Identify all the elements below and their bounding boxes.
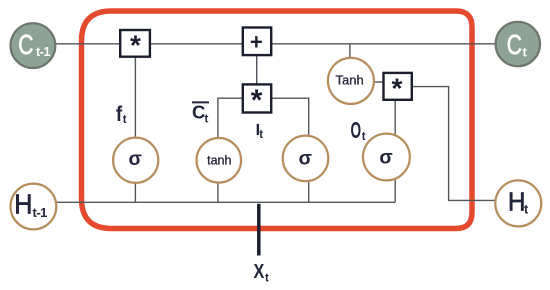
- node Ct (new cell state circle): [496, 22, 540, 66]
- svg-text:t: t: [265, 272, 269, 284]
- svg-text:t: t: [123, 114, 127, 126]
- Xt input line (thick): [257, 204, 261, 256]
- tanh circle (small): [197, 138, 242, 183]
- svg-text:σ: σ: [129, 148, 142, 170]
- svg-text:C: C: [18, 30, 33, 61]
- box *2 (input gate multiply): [243, 84, 271, 112]
- svg-text:H: H: [508, 188, 525, 217]
- wire: forget gate stem (box *1 down to sigma1 and bottom line): [134, 44, 136, 202]
- svg-text:t-1: t-1: [33, 205, 48, 220]
- wire: plus box down to center * box: [256, 44, 258, 98]
- node Ht (hidden state output circle): [495, 180, 541, 226]
- node Ct-1 (previous cell state circle): [11, 23, 56, 68]
- label Ot (output gate): [351, 119, 362, 145]
- svg-text:σ: σ: [299, 148, 312, 170]
- svg-text:*: *: [392, 73, 403, 104]
- sigma1 circle: [113, 138, 158, 183]
- wire: output * box to Ht: [411, 87, 496, 201]
- Tanh circle (output): [328, 58, 374, 104]
- box + (cell state add): [243, 28, 271, 56]
- svg-text:X: X: [254, 260, 265, 282]
- svg-text:O: O: [351, 119, 362, 145]
- wire: cell state line Ct-1 to Ct: [54, 43, 496, 45]
- sigma2 circle: [283, 136, 329, 182]
- svg-text:C: C: [507, 30, 522, 61]
- svg-text:*: *: [130, 30, 141, 61]
- wire: center * box left arm to tanh circle stem: [218, 98, 257, 202]
- svg-text:t: t: [259, 129, 263, 141]
- sigma3 circle: [363, 134, 410, 181]
- svg-text:t: t: [523, 45, 528, 60]
- svg-text:H: H: [14, 188, 32, 220]
- node Ht-1 (previous hidden state circle): [11, 184, 57, 230]
- svg-text:+: +: [250, 30, 263, 55]
- svg-text:tanh: tanh: [207, 153, 231, 167]
- svg-text:C: C: [192, 101, 205, 122]
- wire: center * box right arm to sigma2 stem: [257, 98, 309, 202]
- LSTM cell boundary (red rounded box): [82, 11, 473, 229]
- box *3 (output gate multiply): [384, 73, 412, 100]
- svg-text:Tanh: Tanh: [335, 73, 363, 88]
- label Xt (input): [254, 260, 265, 282]
- wire: bottom hidden-state line from Ht-1: [56, 201, 396, 203]
- svg-text:t: t: [205, 114, 209, 126]
- wire: Tanh circle stem from cell line: [349, 44, 351, 62]
- svg-text:σ: σ: [379, 147, 392, 169]
- svg-text:t: t: [362, 131, 366, 143]
- wire: output * box bottom stem through sigma3 to bottom line: [394, 99, 396, 202]
- wire: Tanh circle to output * box: [372, 81, 385, 83]
- svg-text:t-1: t-1: [36, 45, 51, 59]
- svg-text:f: f: [116, 103, 123, 126]
- svg-text:*: *: [251, 84, 263, 117]
- label ft (forget gate): [116, 103, 123, 126]
- box *1 (forget gate multiply): [120, 30, 150, 57]
